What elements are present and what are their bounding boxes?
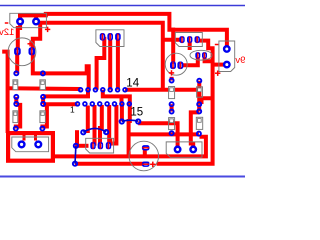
wire resistor col1 pads link — [14, 97, 18, 104]
wire right resistor column through body — [197, 81, 201, 105]
jumper blue vertical wire — [74, 146, 77, 164]
wire resistor col2 pads link — [41, 97, 45, 104]
pad 9V-2 — [224, 62, 229, 67]
jumper blue line wire — [122, 120, 138, 121]
wire 3pin top comp pad2 down — [108, 37, 112, 90]
plus near 9V — [215, 72, 220, 74]
wire feed to 3pin header pad1 — [163, 38, 182, 42]
resistor column pads — [14, 71, 202, 135]
wire short vertical above jumper pad — [75, 130, 79, 146]
svg-text:14: 14 — [126, 77, 139, 89]
minus near 9V — [215, 44, 219, 46]
wire row2 pad to jumper pad — [120, 104, 124, 122]
wire row2 pad3 to bottom 3pin pad1 — [93, 105, 97, 146]
board border bottom line — [0, 176, 245, 178]
pad J3-2 — [36, 142, 42, 148]
capacitor C1 outline — [8, 38, 36, 66]
wire trace2 left part — [75, 162, 149, 166]
board border top line — [0, 5, 245, 7]
wire frame stubs — [24, 134, 36, 141]
3pin top comp outline — [96, 30, 124, 47]
pad J4-1 — [175, 147, 181, 153]
wire 3pin header pad2 stub — [188, 40, 192, 50]
wire 3pin top comp pad3 down — [116, 37, 120, 90]
oval pads bottom 3pin connector — [90, 142, 111, 149]
wire row2 pad6 down stub — [113, 105, 117, 144]
plus in C3 — [150, 163, 155, 165]
wire row2 pad7 stub up — [120, 96, 124, 104]
wire row2 pad5 to bottom 3pin pad3 — [109, 105, 110, 146]
pad holes (white centers) — [19, 20, 229, 151]
3pin right comp outline — [175, 33, 202, 47]
wire col1 bypass down to connector — [16, 105, 20, 129]
wire mid column stub above pad — [170, 77, 174, 81]
resistor R right-col upper body red through — [197, 87, 201, 97]
wire C1 left pad down to resistor pad — [15, 51, 19, 73]
plus minus marks — [5, 23, 221, 167]
wire branch y98.3 to R column — [202, 98, 213, 104]
wire thick jumper pad to bottom right connector — [138, 123, 177, 149]
wire mid horizontal into IC row1 pad2 — [43, 90, 88, 97]
connector frame red zone bottom-left — [8, 133, 53, 161]
plus near J1 — [45, 28, 50, 30]
pads — [17, 19, 229, 152]
component bodies (resistor silkscreen) — [13, 80, 203, 130]
wire trace2 right part up to 3pin header pad3 — [157, 41, 213, 164]
svg-text:15: 15 — [130, 107, 143, 119]
bottom right connector outline — [166, 142, 202, 157]
wire horizontal into IC row2 pad1 — [43, 102, 77, 106]
9V connector outline — [219, 41, 235, 72]
IC row1 pads — [79, 88, 127, 92]
ellipse comp outline — [190, 50, 212, 60]
capacitor C2 outline — [165, 53, 187, 75]
minus near J1 — [5, 22, 9, 24]
wire horizontal y134.4 — [127, 132, 199, 136]
connector J1 outline — [10, 13, 47, 27]
wire net 12V top rail to 9V connector — [18, 14, 227, 49]
red slot marks through oval pads — [17, 34, 204, 165]
jumper blue arc wire — [83, 128, 106, 132]
svg-text:12v: 12v — [0, 27, 14, 38]
capacitor C3 pads — [142, 145, 150, 167]
wire ellipse left pad to C2 right pad — [180, 55, 197, 65]
wire IC row1 pad7 right to R column — [125, 88, 199, 92]
pad J1-2 — [33, 19, 39, 25]
wire col2 bypass down — [42, 105, 47, 129]
oval pads 3pin top comp — [100, 33, 121, 41]
plus in C1 — [28, 43, 33, 45]
wire stub pad2 J1 up — [34, 15, 38, 21]
svg-text:9v: 9v — [235, 55, 245, 66]
IC row2 pads — [76, 102, 132, 106]
wire right column to bottom connector pad — [191, 112, 199, 149]
bottom 3pin connector outline — [86, 138, 114, 153]
wire C3 upper pad stub — [143, 148, 147, 157]
wire net from J1 pad2 down right — [36, 23, 163, 90]
wire stub pad1 J1 up — [18, 15, 22, 21]
bottom-left connector outline — [12, 137, 49, 152]
pad J4-2 — [190, 147, 196, 153]
pad J1-1 — [17, 19, 23, 25]
wire ellipse right pad route — [205, 55, 213, 61]
ellipse comp pads — [195, 52, 207, 58]
capacitor C3 outline — [129, 141, 159, 171]
pad 9V-1 — [224, 46, 229, 51]
resistor bodies outlines — [13, 80, 18, 90]
wire row2 pad2 down stub — [86, 106, 90, 134]
wire horizontal into IC row1 pad1 — [8, 86, 81, 91]
pad J3-1 — [19, 142, 25, 148]
wire right column pads link — [197, 104, 201, 111]
wire row2 pad4 to bottom 3pin pad2 — [100, 105, 102, 146]
wire 3pin top comp pad1 down jog — [97, 37, 105, 90]
wire bottom left jumper pad right — [76, 144, 89, 148]
silkscreen outlines — [8, 13, 235, 171]
wire jog from J1 pad2 to C1 right pad — [33, 22, 40, 51]
wire IC row1 pad4 down right to big vertical down to trace1 — [103, 90, 130, 157]
wire branch to 9V pad2 — [213, 63, 227, 67]
capacitor C2 pads — [170, 62, 183, 70]
wire branch to C2 left pad — [171, 28, 175, 68]
wire J1 pad1 down to C1 left pad — [18, 22, 20, 52]
wire trace1 bottom horizontal to right vertical up — [52, 137, 206, 157]
wire mid column pads stub — [170, 104, 174, 111]
svg-text:1: 1 — [70, 104, 75, 114]
wire C1 right pad down to R rail and up-jog to IC pin — [33, 51, 89, 90]
oval pads 3pin right comp — [179, 36, 200, 43]
wire left edge vertical main — [2, 52, 7, 133]
plus in C2 — [169, 72, 174, 74]
capacitor C1 pads — [14, 47, 35, 55]
resistor body holes — [14, 81, 201, 123]
jumper pads — [73, 119, 141, 166]
